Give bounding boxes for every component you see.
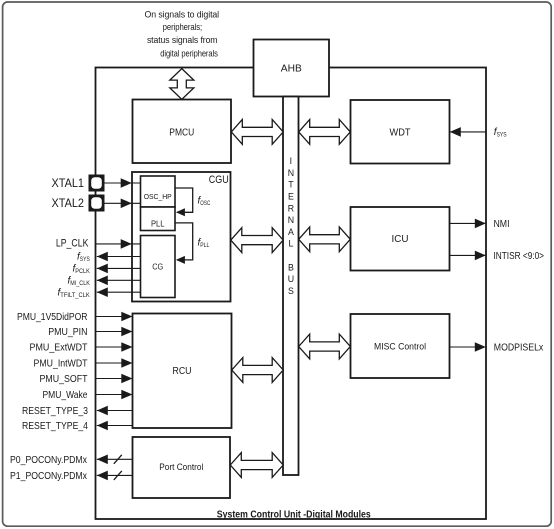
svg-text:U: U — [288, 274, 294, 284]
svg-text:RESET_TYPE_3: RESET_TYPE_3 — [22, 406, 88, 417]
wire: PMU_Wake into RCU — [96, 390, 133, 400]
wire: PMU_1V5DidPOR into RCU — [96, 312, 133, 322]
double arrow: internal bus to ICU — [299, 227, 351, 252]
wire: P0_POCONy.PDMx output (bus width slash) — [97, 455, 133, 465]
double arrow: boundary to PMCU — [170, 69, 194, 100]
svg-text:AHB: AHB — [281, 64, 302, 75]
wire: fOSC loop OSC_HP to PLL — [175, 188, 193, 216]
wire: PMU_SOFT into RCU — [96, 374, 133, 384]
svg-text:digital peripherals: digital peripherals — [160, 48, 218, 58]
OSC_HP block — [141, 176, 176, 207]
svg-text:XTAL1: XTAL1 — [52, 176, 85, 190]
wire: XTAL2 to OSC_HP — [105, 199, 141, 209]
double arrow: internal bus to MISC Control — [299, 334, 351, 359]
svg-text:status signals from: status signals from — [147, 35, 218, 45]
svg-text:CG: CG — [152, 261, 163, 271]
wire: MODPISELx output — [450, 342, 486, 352]
svg-text:LP_CLK: LP_CLK — [56, 237, 89, 249]
svg-text:N: N — [288, 168, 294, 178]
wire: XTAL1 to OSC_HP — [105, 178, 141, 188]
svg-text:WDT: WDT — [390, 128, 411, 139]
XTAL1 pin symbol — [89, 175, 105, 192]
svg-text:PMU_SOFT: PMU_SOFT — [40, 374, 88, 385]
PLL block — [141, 207, 176, 231]
label: on/status signals note — [145, 9, 220, 58]
wire: fSYS clock output — [97, 252, 141, 262]
svg-text:CGU: CGU — [209, 174, 229, 186]
wire: fPCLK clock output — [97, 264, 141, 274]
svg-text:S: S — [288, 286, 294, 296]
double arrow: internal bus to WDT — [299, 120, 351, 145]
RCU block — [133, 314, 232, 429]
wire: fSYS into WDT — [450, 127, 486, 137]
CGU block — [132, 172, 231, 302]
wire: fPLL loop PLL to CG — [175, 223, 193, 264]
double arrow: Port Control to internal bus — [230, 453, 283, 478]
AHB block — [254, 40, 330, 97]
wire: PMU_ExtWDT into RCU — [96, 342, 133, 352]
wire: RESET_TYPE_3 output — [97, 406, 133, 416]
PMCU block — [133, 100, 232, 164]
wire: NMI output — [450, 219, 486, 229]
svg-text:PMU_PIN: PMU_PIN — [48, 327, 87, 338]
svg-text:RCU: RCU — [173, 366, 192, 377]
svg-text:PMU_Wake: PMU_Wake — [43, 390, 88, 401]
svg-text:MISC Control: MISC Control — [374, 342, 426, 353]
double arrow: PMCU to internal bus — [231, 120, 283, 145]
svg-text:N: N — [288, 215, 294, 225]
svg-text:INTISR <9:0>: INTISR <9:0> — [494, 251, 545, 262]
wire: fTFILT_CLK clock output — [97, 287, 141, 297]
svg-text:XTAL2: XTAL2 — [52, 196, 85, 210]
svg-text:T: T — [288, 180, 294, 190]
svg-text:System Control Unit -Digital M: System Control Unit -Digital Modules — [217, 509, 371, 520]
XTAL2 pin symbol — [89, 195, 105, 212]
label: INTERNAL BUS (vertical) — [288, 156, 294, 296]
ICU block — [351, 207, 450, 271]
svg-text:On signals to digital: On signals to digital — [145, 9, 220, 19]
wire: PMU_IntWDT into RCU — [96, 358, 133, 368]
svg-text:E: E — [288, 192, 294, 202]
wire: RESET_TYPE_4 output — [97, 421, 133, 431]
double arrow: CGU to internal bus — [231, 228, 283, 253]
wire: LP_CLK into CG — [96, 239, 141, 249]
svg-text:NMI: NMI — [494, 219, 510, 230]
svg-text:I: I — [290, 156, 292, 166]
internal bus bar — [283, 97, 299, 476]
svg-text:A: A — [288, 227, 294, 237]
svg-text:P1_POCONy.PDMx: P1_POCONy.PDMx — [10, 471, 87, 482]
svg-text:R: R — [288, 203, 294, 213]
wire: INTISR output — [450, 251, 486, 261]
svg-text:P0_POCONy.PDMx: P0_POCONy.PDMx — [10, 455, 87, 466]
svg-text:peripherals;: peripherals; — [163, 22, 203, 32]
svg-text:PMCU: PMCU — [169, 128, 194, 139]
svg-text:PMU_IntWDT: PMU_IntWDT — [34, 359, 88, 370]
double arrow: RCU to internal bus — [232, 358, 283, 383]
MISC Control block — [351, 314, 450, 378]
wire: PMU_PIN into RCU — [96, 327, 133, 337]
SCU module boundary box — [96, 68, 487, 520]
svg-text:B: B — [288, 262, 294, 272]
svg-text:PMU_ExtWDT: PMU_ExtWDT — [30, 343, 88, 354]
CG block — [141, 236, 176, 298]
wire: P1_POCONy.PDMx output (bus width slash) — [97, 471, 133, 481]
svg-text:PMU_1V5DidPOR: PMU_1V5DidPOR — [17, 312, 88, 323]
svg-text:L: L — [288, 239, 293, 249]
svg-text:PLL: PLL — [151, 218, 165, 228]
svg-text:ICU: ICU — [392, 234, 409, 245]
wire: fMI_CLK clock output — [97, 276, 141, 286]
WDT block — [351, 100, 450, 164]
svg-text:RESET_TYPE_4: RESET_TYPE_4 — [22, 421, 88, 432]
svg-text:OSC_HP: OSC_HP — [144, 192, 172, 201]
svg-text:MODPISELx: MODPISELx — [494, 343, 544, 354]
Port Control block — [133, 437, 231, 498]
svg-text:Port Control: Port Control — [159, 462, 203, 473]
